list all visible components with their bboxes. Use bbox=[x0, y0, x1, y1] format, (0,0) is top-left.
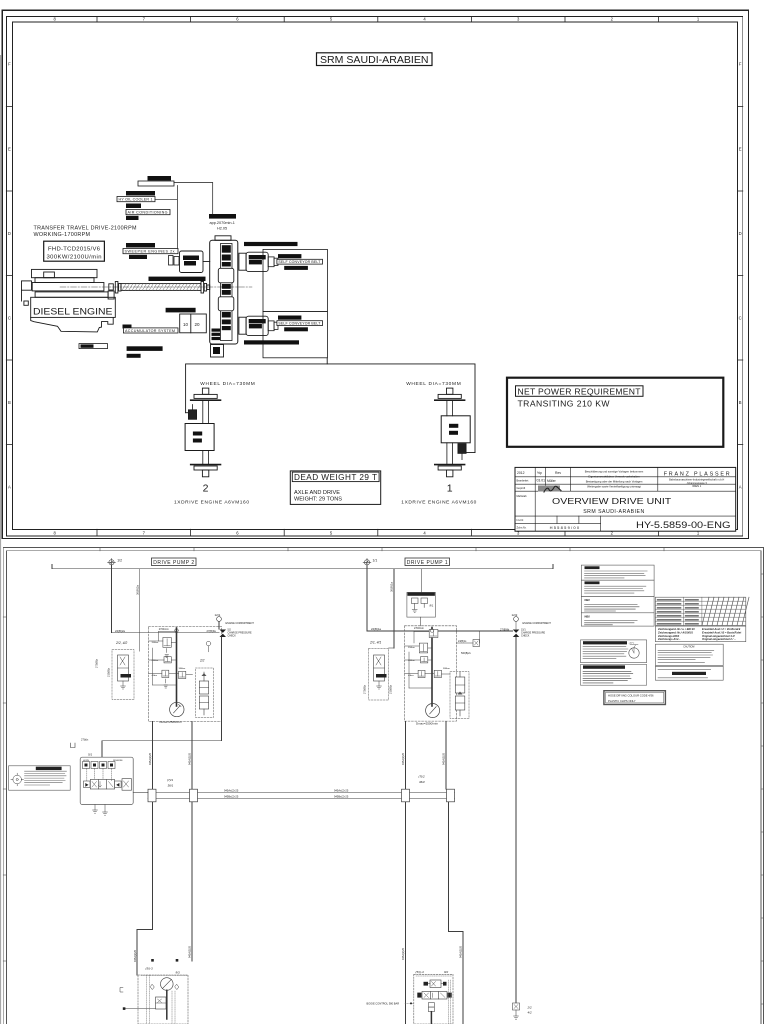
zone tick marks top border bbox=[97, 16, 659, 22]
drive pump 1 labels bbox=[249, 255, 266, 264]
solenoid note block bbox=[581, 664, 647, 685]
attention right box bbox=[655, 666, 723, 680]
svg-text:CHECK: CHECK bbox=[228, 635, 237, 638]
svg-text:2700/min: 2700/min bbox=[159, 628, 170, 631]
pump cluster drive pump 2 filter stack bbox=[199, 672, 208, 715]
svg-text:HY-5.5859-00-ENG: HY-5.5859-00-ENG bbox=[636, 520, 731, 530]
zone tick marks bottom border bbox=[97, 529, 659, 536]
pump cluster drive pump 2 pump circle bbox=[170, 702, 184, 716]
manifold side pilots bbox=[84, 781, 122, 788]
svg-text:1XDRIVE ENGINE A6VM160: 1XDRIVE ENGINE A6VM160 bbox=[174, 500, 249, 506]
page 2 outer border bbox=[3, 547, 763, 1024]
conveyor group box upper bbox=[263, 249, 327, 311]
bogie feed verticals lower right bbox=[406, 802, 464, 1024]
svg-text:+15°C: +15°C bbox=[629, 643, 635, 645]
label dark mb tag 2 bbox=[129, 255, 147, 259]
svg-text:10: 10 bbox=[183, 322, 189, 327]
svg-text:380bar: 380bar bbox=[443, 667, 450, 670]
svg-text:Weitergabe sowie Vervielfaelti: Weitergabe sowie Vervielfaeltigung unter… bbox=[587, 485, 641, 489]
charge check pump 1 circle bbox=[514, 617, 519, 622]
wheelset 1 upper axle bbox=[447, 401, 453, 416]
hose colour code box bbox=[604, 691, 666, 705]
signature squiggle bbox=[538, 486, 561, 493]
drive pump 2 body A4VSO250 bbox=[246, 316, 268, 335]
engine output coupling right bbox=[108, 284, 114, 299]
pump 1 pump circle bbox=[426, 704, 440, 718]
note box attention 2 bbox=[581, 580, 654, 596]
wheelset 1 bottom wheel bbox=[435, 465, 465, 470]
pump 1 filter stack bbox=[455, 672, 465, 716]
svg-text:B: B bbox=[739, 400, 742, 405]
manifold directional valve bbox=[90, 780, 114, 790]
label dark hy oil cooler tag bbox=[126, 191, 155, 196]
pump 2 aux valve dashed box bbox=[112, 650, 134, 700]
texts 2/2 4/2 far right bbox=[527, 1006, 533, 1015]
bogie 3 motor drive line bbox=[166, 990, 168, 1019]
wheelset 1 lower axle bbox=[447, 443, 453, 464]
aux pump to gearbox link bbox=[203, 261, 210, 263]
mid connector pump1 bbox=[457, 640, 480, 647]
charge line pump 1 long drop bbox=[515, 637, 517, 1003]
svg-text:B: B bbox=[8, 400, 11, 405]
leader line top pair to gearbox bbox=[174, 183, 213, 215]
drive line to right axle motor bbox=[466, 452, 475, 454]
svg-text:AIR CONDITIONING: AIR CONDITIONING bbox=[128, 211, 168, 215]
pump 1 main pressure line bbox=[431, 628, 433, 707]
svg-text:F: F bbox=[8, 62, 11, 67]
wheelset 2 lower axle bbox=[203, 451, 209, 465]
label dark hydrostat 1 bbox=[278, 254, 301, 258]
zone numbers top bbox=[54, 17, 700, 22]
bogie 3 motor circle bbox=[161, 978, 174, 991]
pump 2 aux valve label bbox=[121, 674, 132, 678]
drive pump 2 labels bbox=[249, 319, 266, 328]
svg-text:%p: %p bbox=[537, 471, 542, 475]
svg-text:12/1: 12/1 bbox=[215, 613, 221, 617]
svg-text:Zchn.Nr.: Zchn.Nr. bbox=[517, 526, 527, 530]
svg-text:NET POWER REQUIREMENT: NET POWER REQUIREMENT bbox=[518, 386, 642, 396]
wheelset 1 top stub bbox=[447, 388, 453, 394]
hose end flanges bbox=[148, 789, 455, 802]
zone letters right bbox=[739, 62, 742, 490]
label hy drive gearbox above shaft bbox=[149, 277, 206, 281]
gearbox gear teeth bars bbox=[222, 245, 231, 330]
diesel engine oil sump outline bbox=[31, 317, 114, 332]
title block franz plasser bbox=[664, 471, 730, 488]
cardan shaft hatching bbox=[122, 284, 201, 290]
svg-text:36(B)1a: 36(B)1a bbox=[390, 582, 394, 592]
bogie 4 drive line bbox=[430, 1012, 432, 1024]
bogie 4 top valve bbox=[427, 980, 444, 988]
aux pump body A4VSO bbox=[180, 251, 204, 273]
svg-text:Bahnbaumaschinen-Industriegese: Bahnbaumaschinen-Industriegesellschaft m… bbox=[669, 477, 724, 481]
bogie 4 cluster dashed box bbox=[414, 974, 453, 1024]
svg-text:210(B)x: 210(B)x bbox=[107, 667, 111, 677]
svg-text:Dmax=2500/min: Dmax=2500/min bbox=[416, 722, 438, 726]
svg-text:27(b)x: 27(b)x bbox=[81, 737, 89, 741]
svg-text:945A(2)25: 945A(2)25 bbox=[459, 945, 463, 958]
pump 1 filter sub box bbox=[450, 672, 469, 719]
page 2 inner border bbox=[6, 551, 761, 1024]
page 2 zone ticks left bbox=[3, 617, 6, 961]
wheelset 2 upper axle bbox=[203, 401, 209, 424]
svg-text:24(B)1s: 24(B)1s bbox=[458, 640, 467, 643]
suction line pump 2 bbox=[139, 569, 141, 651]
svg-text:ENGINE COMPARTMENT: ENGINE COMPARTMENT bbox=[226, 622, 255, 625]
cardan shaft flange left bbox=[115, 282, 121, 294]
svg-text:2/2: 2/2 bbox=[527, 1006, 533, 1010]
label dark mb small bbox=[123, 325, 132, 329]
wheelset 2 bottom stub bbox=[202, 470, 208, 477]
charge check pump 2 texts bbox=[228, 629, 252, 638]
gearbox bottom output box bbox=[211, 345, 224, 358]
svg-text:2700/min: 2700/min bbox=[414, 627, 425, 630]
caution dial box bbox=[581, 640, 647, 663]
position symbol pump 2 bbox=[108, 558, 116, 566]
title block grid lines bbox=[515, 467, 736, 531]
bogie 3 left bracket bbox=[120, 988, 123, 993]
wheelset 1 gearbox labels bbox=[449, 424, 458, 435]
svg-text:Inv.Nr.: Inv.Nr. bbox=[517, 518, 525, 522]
svg-text:C: C bbox=[8, 315, 11, 320]
mid line to charge right bbox=[480, 621, 517, 643]
drive pump 2 shaft end box bbox=[268, 321, 278, 331]
far right small valve bbox=[513, 1003, 520, 1019]
svg-text:2/2: 2/2 bbox=[199, 659, 205, 663]
accumulator block bbox=[180, 314, 207, 333]
svg-text:A: A bbox=[8, 484, 11, 489]
feed line pump 2 bbox=[112, 632, 220, 634]
bogie 3 cluster dashed box bbox=[138, 975, 188, 1024]
conveyor group box lower bbox=[263, 312, 327, 358]
svg-text:1: 1 bbox=[447, 483, 453, 495]
pump cluster drive pump 2 small gauge circle bbox=[206, 641, 211, 652]
manifold top solenoid row bbox=[83, 762, 116, 769]
svg-text:PLASTIC CLIPS ONLY: PLASTIC CLIPS ONLY bbox=[608, 699, 636, 703]
svg-text:TRANSITING 210 KW: TRANSITING 210 KW bbox=[518, 398, 611, 408]
page 2 zone ticks top bbox=[100, 547, 664, 551]
drive pump 1 label bbox=[405, 558, 450, 566]
wheelset 1 bottom stub bbox=[447, 470, 453, 477]
title block german note lines bbox=[585, 469, 644, 488]
label box air conditioning bbox=[126, 210, 170, 215]
svg-text:FHD-TCD2015/V6: FHD-TCD2015/V6 bbox=[48, 246, 101, 252]
label dark scraper 2 bbox=[284, 327, 308, 331]
wheelset 1 hydraulic motor bbox=[458, 444, 466, 460]
leader line label stack to pump bbox=[155, 186, 177, 252]
svg-text:Rev: Rev bbox=[555, 471, 561, 475]
svg-text:DRIVE PUMP 1: DRIVE PUMP 1 bbox=[407, 560, 448, 566]
drive pump 2 coupling bbox=[239, 317, 246, 334]
zone letters left bbox=[8, 62, 11, 490]
page 1 sheet border outer bbox=[2, 10, 748, 538]
text 7/1 36/1 bbox=[167, 778, 174, 788]
svg-text:CAUTION!: CAUTION! bbox=[683, 646, 695, 649]
pump 1 top aux box bbox=[407, 592, 436, 617]
svg-text:945A(2)25: 945A(2)25 bbox=[187, 752, 191, 765]
svg-text:210(B)x: 210(B)x bbox=[389, 684, 393, 694]
drive line routing top bbox=[186, 364, 475, 453]
gearbox bearing block upper bbox=[218, 268, 234, 283]
pump 2 aux valve body bbox=[118, 655, 129, 681]
svg-text:Beschilderung und sonstige Vor: Beschilderung und sonstige Vorlagen beko… bbox=[585, 469, 644, 473]
pump 1 aux box drop bbox=[420, 617, 422, 626]
drop line to pump 2 bbox=[111, 565, 113, 633]
svg-text:2/1, 4/1: 2/1, 4/1 bbox=[369, 641, 381, 645]
bogie 4 texts bbox=[416, 970, 449, 974]
wheelset 1 axle gearbox bbox=[441, 416, 470, 443]
zone tick marks right border bbox=[738, 107, 743, 445]
pumps rpm values text bbox=[210, 221, 235, 230]
svg-text:27(B)9b: 27(B)9b bbox=[500, 627, 510, 631]
svg-text:Zeichnungs-ER/4: Zeichnungs-ER/4 bbox=[657, 634, 680, 638]
label dark transfer belt bbox=[127, 346, 163, 351]
pump cluster drive pump 2 internal lines bbox=[149, 632, 193, 689]
pump 1 suction jog bbox=[389, 647, 394, 649]
engine compartment boundary left bbox=[102, 722, 222, 758]
svg-text:A: A bbox=[739, 484, 742, 489]
bogie 3 pilot arrow line bbox=[123, 1007, 156, 1010]
pump 1 aux valve label bbox=[376, 674, 387, 678]
gearbox gear strip bbox=[221, 244, 233, 341]
svg-text:Bearbeitet: Bearbeitet bbox=[517, 478, 529, 482]
drive pump 1 body A4VSO250 bbox=[246, 252, 268, 271]
bogie hose pipe lines bbox=[148, 792, 455, 798]
charge check pump 1 texts bbox=[521, 629, 545, 638]
bogie 4 dotted rails bbox=[405, 976, 452, 1024]
viewer edge shadow line bbox=[0, 55, 1, 1024]
pump 1 internal lines bbox=[405, 632, 451, 689]
svg-text:Original eingezeichnet 4 /2: Original eingezeichnet 4 /2 bbox=[702, 634, 735, 638]
manifold 5/1 body bbox=[80, 757, 133, 804]
drive line gearbox drop bbox=[326, 358, 328, 364]
label dark col tag bbox=[126, 204, 141, 209]
drive pump 1 shaft end box bbox=[268, 257, 278, 267]
label box re cooler bbox=[79, 344, 108, 349]
svg-text:SELF CONVEYOR BELT: SELF CONVEYOR BELT bbox=[278, 260, 321, 264]
charge check pump 2 valve triangles bbox=[220, 630, 227, 638]
manifold to pipe link bbox=[133, 792, 148, 794]
svg-text:270(B)x: 270(B)x bbox=[363, 684, 367, 694]
svg-text:24(B)2a: 24(B)2a bbox=[115, 629, 125, 633]
diesel engine middle band bbox=[32, 283, 108, 298]
svg-text:24(B)1a: 24(B)1a bbox=[371, 627, 381, 631]
svg-text:AXLE AND DRIVE: AXLE AND DRIVE bbox=[294, 490, 340, 496]
pump 1 aux valve body bbox=[374, 655, 385, 681]
svg-text:9/2: 9/2 bbox=[444, 970, 449, 974]
svg-text:DEAD WEIGHT 29 T: DEAD WEIGHT 29 T bbox=[294, 473, 377, 482]
svg-text:2/2, 4/2: 2/2, 4/2 bbox=[115, 641, 127, 645]
gearbox lower output stack bbox=[212, 329, 221, 341]
label dark scraper 1 bbox=[284, 266, 308, 270]
drive pump 2 label bbox=[152, 558, 197, 566]
svg-text:945Bx(2)-25: 945Bx(2)-25 bbox=[224, 795, 239, 799]
svg-text:SELF CONVEYOR BELT: SELF CONVEYOR BELT bbox=[278, 322, 321, 326]
svg-text:1/1: 1/1 bbox=[373, 559, 378, 563]
label dark top bbox=[148, 176, 172, 181]
label box self conveyor belt 2 bbox=[277, 321, 323, 326]
engine spec box FHD-TCD2015/V6 bbox=[44, 241, 105, 261]
svg-text:TRANSFER TRAVEL DRIVE-2100RPM: TRANSFER TRAVEL DRIVE-2100RPM bbox=[34, 226, 138, 232]
zone tick marks left border bbox=[6, 107, 12, 445]
label dark hy oil coolers bbox=[126, 243, 155, 248]
svg-text:(5/)-3: (5/)-3 bbox=[146, 967, 153, 971]
pump 1 left aux valve dashed box bbox=[369, 649, 389, 701]
text 7/2 36/2 bbox=[419, 775, 426, 785]
left caution note box bbox=[9, 766, 71, 790]
svg-text:Maßstab: Maßstab bbox=[517, 494, 528, 498]
dead weight box bbox=[290, 471, 380, 505]
title block cell labels bbox=[517, 494, 528, 530]
svg-text:945A(2)25: 945A(2)25 bbox=[148, 752, 152, 765]
svg-text:WEIGHT: 29 TONS: WEIGHT: 29 TONS bbox=[294, 497, 342, 503]
label box sweeper engines bbox=[123, 249, 178, 254]
svg-text:27(B)9a: 27(B)9a bbox=[207, 629, 217, 633]
svg-text:2012: 2012 bbox=[517, 471, 525, 475]
svg-text:36/1: 36/1 bbox=[168, 784, 174, 788]
svg-text:4/2: 4/2 bbox=[528, 1011, 533, 1015]
label dark travelling drive pump top bbox=[244, 242, 298, 246]
svg-text:Zeichnungend.-Nr./-A/01/001: Zeichnungend.-Nr./-A/01/001 bbox=[657, 630, 693, 634]
svg-text:app.2070min-1: app.2070min-1 bbox=[210, 221, 235, 225]
manifold second valve bbox=[122, 779, 132, 791]
aux pump labels bbox=[183, 256, 199, 266]
note transfer travel drive text bbox=[34, 226, 138, 238]
svg-text:DRIVE PUMP 2: DRIVE PUMP 2 bbox=[153, 560, 194, 566]
label box accumulator system bbox=[123, 328, 178, 333]
wheelset 2 top wheel bbox=[191, 394, 221, 400]
label box self conveyor belt 1 bbox=[277, 259, 323, 264]
svg-text:ACCUMULATOR SYSTEM: ACCUMULATOR SYSTEM bbox=[125, 329, 175, 333]
pump cluster drive pump 2 dashed enclosure bbox=[149, 627, 222, 722]
svg-text:WORKING-1700RPM: WORKING-1700RPM bbox=[34, 232, 91, 238]
pump 1 valve internals bbox=[419, 631, 440, 677]
net power requirement box bbox=[507, 378, 723, 447]
bogie 4 junction dot bbox=[410, 1002, 412, 1004]
svg-text:SRM SAUDI-ARABIEN: SRM SAUDI-ARABIEN bbox=[583, 509, 644, 515]
svg-text:Zeichnungs-A/nr--: Zeichnungs-A/nr-- bbox=[657, 637, 680, 641]
caution right box bbox=[655, 644, 723, 665]
charge check pump 1 triangles bbox=[513, 630, 520, 638]
svg-text:FRANZ PLASSER: FRANZ PLASSER bbox=[664, 471, 730, 477]
svg-text:BOGIE CONTROL 380 BAR: BOGIE CONTROL 380 BAR bbox=[367, 1002, 400, 1006]
aux pump left couplings bbox=[169, 256, 180, 266]
charge line pump 2 bbox=[219, 621, 222, 721]
svg-text:D: D bbox=[8, 231, 11, 236]
svg-text:(7)/1: (7)/1 bbox=[167, 778, 174, 782]
manifold internal dashes bbox=[87, 769, 112, 782]
gearbox bearing block lower bbox=[218, 297, 234, 311]
drop line to pump 1 bbox=[366, 565, 368, 631]
svg-text:1XDRIVE ENGINE A6VM160: 1XDRIVE ENGINE A6VM160 bbox=[401, 500, 476, 506]
note box attention 1 bbox=[581, 565, 654, 580]
pump 1 control valves bbox=[418, 630, 441, 678]
bogie 3 line end arrows bbox=[151, 959, 178, 962]
wheelset 2 top stub bbox=[202, 388, 208, 394]
label dark hydrostat 2 bbox=[278, 316, 301, 320]
svg-text:20: 20 bbox=[195, 322, 201, 327]
pump cluster drive pump 2 control valves bbox=[162, 638, 186, 679]
svg-text:Ersatzteil-Ausf./ B = Basis/F: Ersatzteil-Ausf./ B = Basis/Fahrt bbox=[702, 630, 741, 634]
wheelset 2 bottom wheel bbox=[191, 465, 221, 470]
svg-text:C: C bbox=[739, 315, 742, 320]
title block outer bbox=[515, 467, 736, 531]
svg-text:DIESEL ENGINE: DIESEL ENGINE bbox=[33, 307, 113, 317]
svg-text:D: D bbox=[739, 231, 742, 236]
bogie 4 directional valve bbox=[422, 992, 447, 1000]
page 2 zone ticks right bbox=[761, 574, 764, 1004]
bogie 4 side pilots bbox=[417, 993, 451, 998]
cardan shaft flange right bbox=[201, 282, 210, 294]
pump 1 rail to aux box line bbox=[421, 569, 423, 592]
svg-text:WHEEL DIA=730MM: WHEEL DIA=730MM bbox=[200, 381, 255, 387]
svg-text:300KW/2100U/min: 300KW/2100U/min bbox=[47, 254, 102, 260]
svg-text:WIEN 1: WIEN 1 bbox=[692, 484, 701, 488]
pump cluster drive pump 1 dashed enclosure bbox=[405, 626, 457, 721]
svg-text:36(B)2a: 36(B)2a bbox=[135, 585, 139, 595]
tank stub bbox=[71, 743, 76, 748]
pump cluster drive pump 2 main pressure line bbox=[176, 628, 178, 706]
label box hy oil cooler 1 bbox=[117, 197, 155, 202]
svg-text:380bar: 380bar bbox=[179, 667, 186, 670]
svg-text:270(B)x: 270(B)x bbox=[95, 658, 99, 668]
table caption block bbox=[655, 626, 745, 642]
svg-text:Geprüft: Geprüft bbox=[517, 486, 526, 490]
svg-text:E: E bbox=[8, 146, 11, 151]
svg-text:HOSE DRYING COLOUR CODE 4/36: HOSE DRYING COLOUR CODE 4/36 bbox=[608, 693, 654, 697]
pump cluster drive pump 2 top circle bbox=[175, 629, 179, 633]
svg-text:WHEEL DIA=730MM: WHEEL DIA=730MM bbox=[406, 381, 461, 387]
charge check pump 2 circle bbox=[217, 617, 222, 622]
svg-text:Original eingezeichnet 2 / --: Original eingezeichnet 2 / -- bbox=[702, 637, 736, 641]
engine flywheel housing left bbox=[22, 281, 32, 305]
svg-text:03.01: 03.01 bbox=[537, 478, 546, 482]
svg-text:Dmax=2500/min: Dmax=2500/min bbox=[160, 720, 182, 724]
feed line pump 1 bbox=[367, 630, 513, 632]
svg-text:5/1: 5/1 bbox=[88, 753, 93, 757]
svg-text:Bestaetigung oder der Mitteilu: Bestaetigung oder der Mitteilung nach Vo… bbox=[586, 480, 643, 484]
position symbol pump 1 bbox=[363, 558, 371, 566]
diesel engine main block bbox=[31, 297, 116, 317]
bogie 3 brake valve bbox=[156, 997, 167, 1009]
svg-text:945A(2)25: 945A(2)25 bbox=[401, 947, 405, 960]
pump 1 aux valve drains bbox=[377, 681, 382, 689]
svg-text:Müller: Müller bbox=[547, 479, 557, 483]
label dark accumulator tag bbox=[166, 308, 196, 313]
svg-text:CHECK: CHECK bbox=[521, 635, 530, 638]
svg-text:OVERVIEW DRIVE UNIT: OVERVIEW DRIVE UNIT bbox=[552, 496, 672, 506]
drive line to left axle motor bbox=[186, 412, 189, 414]
pump 1 top circle bbox=[430, 629, 434, 633]
pump 1 bar texts bbox=[408, 646, 450, 677]
bogie 3 texts bbox=[146, 967, 181, 975]
svg-text:9/3: 9/3 bbox=[176, 971, 181, 975]
svg-text:F: F bbox=[739, 62, 742, 67]
svg-text:36/2: 36/2 bbox=[419, 780, 425, 784]
zone numbers bottom bbox=[54, 530, 700, 535]
label dark travelling drive pump bottom bbox=[244, 340, 299, 344]
pump cluster drive pump 2 valve springs bbox=[163, 639, 185, 677]
title block header tiny texts bbox=[517, 471, 562, 490]
wheelset 2 hydraulic motor bbox=[188, 405, 196, 420]
svg-text:SWEEPER ENGINES 2x: SWEEPER ENGINES 2x bbox=[125, 250, 175, 254]
drive pump 1 coupling bbox=[239, 253, 246, 270]
svg-text:E: E bbox=[739, 146, 742, 151]
svg-text:H2.05: H2.05 bbox=[217, 226, 227, 230]
hose labels bbox=[224, 788, 349, 798]
suction line pump 1 bbox=[393, 569, 395, 648]
svg-text:(5/)(-4: (5/)(-4 bbox=[416, 970, 424, 974]
